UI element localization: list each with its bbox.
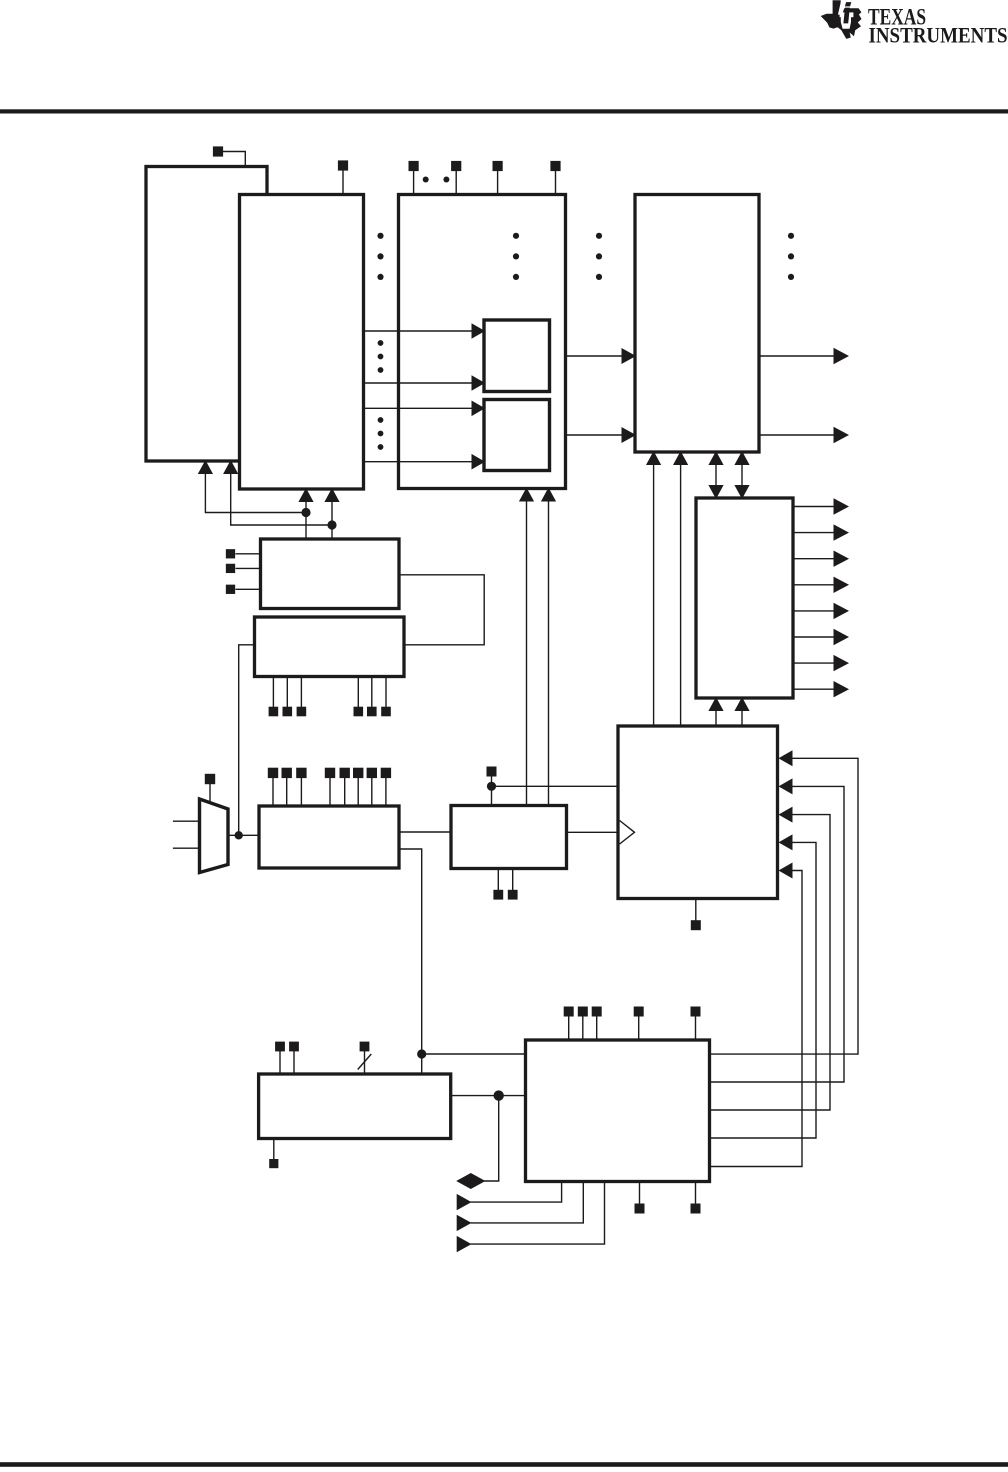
svg-text:INSTRUMENTS: INSTRUMENTS — [869, 22, 1008, 47]
